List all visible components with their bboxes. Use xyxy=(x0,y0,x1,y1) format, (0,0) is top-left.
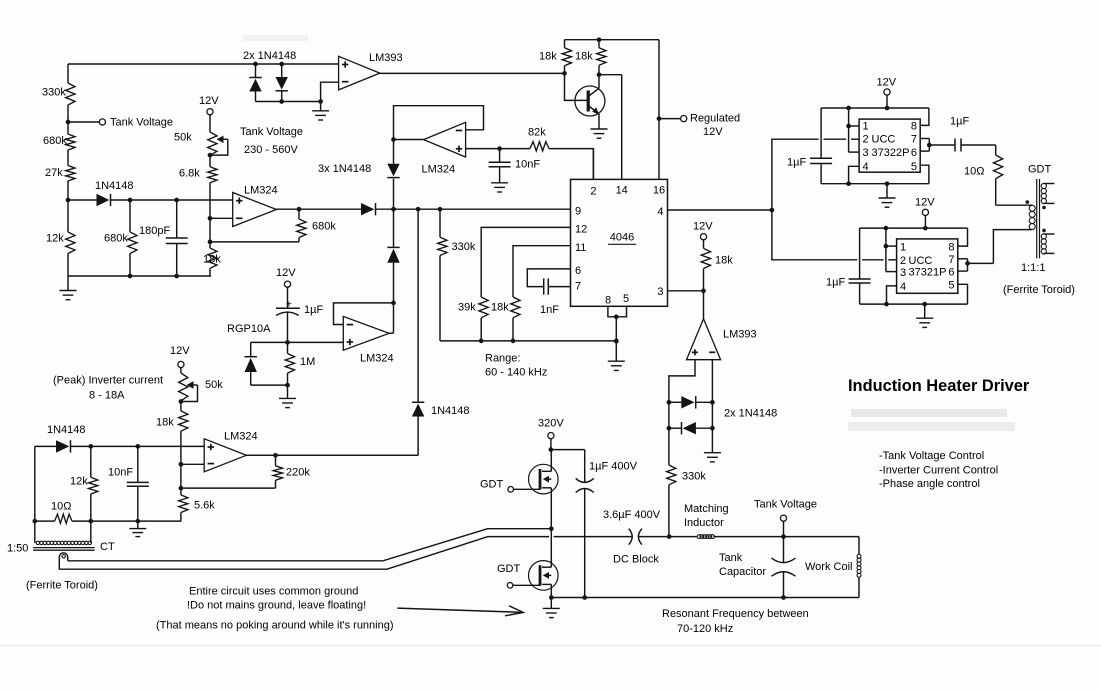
svg-text:6: 6 xyxy=(948,266,954,278)
svg-text:Capacitor: Capacitor xyxy=(719,566,766,578)
svg-text:1N4148: 1N4148 xyxy=(431,405,470,417)
svg-text:Regulated: Regulated xyxy=(690,112,740,124)
svg-text:5: 5 xyxy=(911,161,917,173)
svg-text:GDT: GDT xyxy=(1028,164,1052,176)
svg-text:10nF: 10nF xyxy=(108,467,133,479)
svg-text:50k: 50k xyxy=(174,132,192,144)
svg-text:LM393: LM393 xyxy=(723,329,757,341)
svg-text:50k: 50k xyxy=(205,379,223,391)
svg-text:1M: 1M xyxy=(300,356,315,368)
svg-text:6: 6 xyxy=(911,147,917,159)
svg-text:12k: 12k xyxy=(70,476,88,488)
svg-text:12V: 12V xyxy=(170,345,190,357)
svg-text:10nF: 10nF xyxy=(515,159,540,171)
svg-text:-Tank Voltage Control: -Tank Voltage Control xyxy=(879,450,984,462)
svg-text:3: 3 xyxy=(657,286,663,298)
svg-text:3: 3 xyxy=(900,267,906,279)
svg-text:70-120 kHz: 70-120 kHz xyxy=(677,623,733,635)
svg-text:7: 7 xyxy=(911,134,917,146)
svg-text:Tank Voltage: Tank Voltage xyxy=(110,117,173,129)
svg-text:-Phase angle control: -Phase angle control xyxy=(879,478,980,490)
svg-text:10Ω: 10Ω xyxy=(51,501,71,513)
svg-text:1: 1 xyxy=(900,241,906,253)
svg-text:GDT: GDT xyxy=(480,479,504,491)
svg-text:3: 3 xyxy=(863,147,869,159)
svg-text:(Ferrite Toroid): (Ferrite Toroid) xyxy=(26,580,98,592)
svg-text:10Ω: 10Ω xyxy=(964,166,984,178)
svg-text:Entire circuit uses common gro: Entire circuit uses common ground xyxy=(189,585,358,597)
svg-text:6.8k: 6.8k xyxy=(179,168,200,180)
svg-text:(Ferrite Toroid): (Ferrite Toroid) xyxy=(1003,284,1075,296)
svg-text:1µF: 1µF xyxy=(787,157,806,169)
svg-text:Tank Voltage: Tank Voltage xyxy=(754,499,817,511)
svg-text:3.6µF 400V: 3.6µF 400V xyxy=(603,509,661,521)
svg-text:Induction Heater Driver: Induction Heater Driver xyxy=(848,377,1030,395)
svg-text:18k: 18k xyxy=(575,51,593,63)
svg-text:2: 2 xyxy=(590,186,596,198)
svg-text:4: 4 xyxy=(657,206,663,218)
svg-text:680k: 680k xyxy=(43,135,67,147)
svg-text:LM324: LM324 xyxy=(422,164,456,176)
svg-text:LM324: LM324 xyxy=(224,431,258,443)
svg-text:1µF: 1µF xyxy=(950,116,969,128)
svg-text:1µF: 1µF xyxy=(304,304,323,316)
svg-text:12k: 12k xyxy=(46,233,64,245)
svg-text:Tank Voltage: Tank Voltage xyxy=(240,126,303,138)
svg-text:1:50: 1:50 xyxy=(7,543,28,555)
svg-text:12V: 12V xyxy=(703,126,723,138)
svg-text:(That means no poking around w: (That means no poking around while it's … xyxy=(156,619,394,631)
svg-text:18k: 18k xyxy=(156,417,174,429)
svg-text:180pF: 180pF xyxy=(139,225,170,237)
svg-text:330k: 330k xyxy=(682,471,706,483)
svg-text:3x 1N4148: 3x 1N4148 xyxy=(318,163,371,175)
svg-text:9: 9 xyxy=(575,206,581,218)
svg-text:Range:: Range: xyxy=(485,353,520,365)
svg-text:(Peak) Inverter current: (Peak) Inverter current xyxy=(53,375,163,387)
svg-text:1N4148: 1N4148 xyxy=(47,424,86,436)
svg-text:12V: 12V xyxy=(915,197,935,209)
svg-text:12V: 12V xyxy=(877,77,897,89)
svg-text:230 - 560V: 230 - 560V xyxy=(244,144,298,156)
svg-text:5: 5 xyxy=(948,280,954,292)
svg-text:37321P: 37321P xyxy=(909,267,947,279)
svg-text:5: 5 xyxy=(623,293,629,305)
svg-text:Inductor: Inductor xyxy=(684,517,724,529)
svg-text:12: 12 xyxy=(575,224,587,236)
svg-text:27k: 27k xyxy=(45,167,63,179)
svg-text:37322P: 37322P xyxy=(872,147,910,159)
svg-text:330k: 330k xyxy=(452,241,476,253)
svg-text:8: 8 xyxy=(948,241,954,253)
svg-text:!Do not mains ground, leave fl: !Do not mains ground, leave floating! xyxy=(187,600,366,612)
svg-text:680k: 680k xyxy=(312,221,336,233)
svg-text:Work Coil: Work Coil xyxy=(805,561,852,573)
svg-text:4046: 4046 xyxy=(610,232,634,244)
svg-text:14: 14 xyxy=(616,185,628,197)
svg-text:8: 8 xyxy=(911,121,917,133)
svg-text:LM324: LM324 xyxy=(244,185,278,197)
svg-text:5.6k: 5.6k xyxy=(194,500,215,512)
svg-text:UCC: UCC xyxy=(872,134,896,146)
svg-text:220k: 220k xyxy=(286,467,310,479)
svg-text:2: 2 xyxy=(900,255,906,267)
svg-text:12V: 12V xyxy=(693,221,713,233)
svg-text:LM393: LM393 xyxy=(369,52,403,64)
svg-text:39k: 39k xyxy=(458,302,476,314)
svg-text:7: 7 xyxy=(948,254,954,266)
svg-text:16: 16 xyxy=(653,185,665,197)
svg-text:6: 6 xyxy=(575,265,581,277)
svg-text:RGP10A: RGP10A xyxy=(227,323,271,335)
svg-text:1µF: 1µF xyxy=(826,277,845,289)
svg-text:2x 1N4148: 2x 1N4148 xyxy=(243,50,296,62)
svg-text:320V: 320V xyxy=(538,418,564,430)
svg-text:LM324: LM324 xyxy=(360,353,394,365)
svg-text:4: 4 xyxy=(900,281,906,293)
svg-text:1: 1 xyxy=(863,121,869,133)
svg-text:1µF 400V: 1µF 400V xyxy=(589,461,638,473)
svg-text:1nF: 1nF xyxy=(540,304,559,316)
svg-text:+: + xyxy=(286,300,292,311)
svg-text:11: 11 xyxy=(575,242,586,254)
svg-text:1:1:1: 1:1:1 xyxy=(1021,262,1045,274)
svg-text:680k: 680k xyxy=(104,233,128,245)
svg-text:18k: 18k xyxy=(203,254,221,266)
svg-text:1N4148: 1N4148 xyxy=(95,180,134,192)
svg-text:UCC: UCC xyxy=(909,255,933,267)
svg-text:18k: 18k xyxy=(539,51,557,63)
svg-text:-Inverter Current Control: -Inverter Current Control xyxy=(879,464,998,476)
svg-text:CT: CT xyxy=(100,541,115,553)
svg-text:18k: 18k xyxy=(715,255,733,267)
svg-text:2: 2 xyxy=(863,134,869,146)
svg-text:4: 4 xyxy=(863,161,869,173)
svg-text:60 - 140 kHz: 60 - 140 kHz xyxy=(485,367,547,379)
svg-text:330k: 330k xyxy=(42,87,66,99)
svg-text:18k: 18k xyxy=(491,302,509,314)
svg-text:Tank: Tank xyxy=(719,552,743,564)
svg-text:Resonant Frequency between: Resonant Frequency between xyxy=(662,608,809,620)
svg-text:7: 7 xyxy=(575,281,581,293)
svg-text:82k: 82k xyxy=(528,127,546,139)
svg-text:2x 1N4148: 2x 1N4148 xyxy=(724,408,777,420)
svg-text:12V: 12V xyxy=(199,95,219,107)
svg-text:GDT: GDT xyxy=(497,563,521,575)
svg-text:8 - 18A: 8 - 18A xyxy=(89,390,125,402)
svg-text:Matching: Matching xyxy=(684,503,729,515)
svg-text:DC Block: DC Block xyxy=(613,554,659,566)
svg-text:12V: 12V xyxy=(276,267,296,279)
svg-text:8: 8 xyxy=(605,295,611,307)
